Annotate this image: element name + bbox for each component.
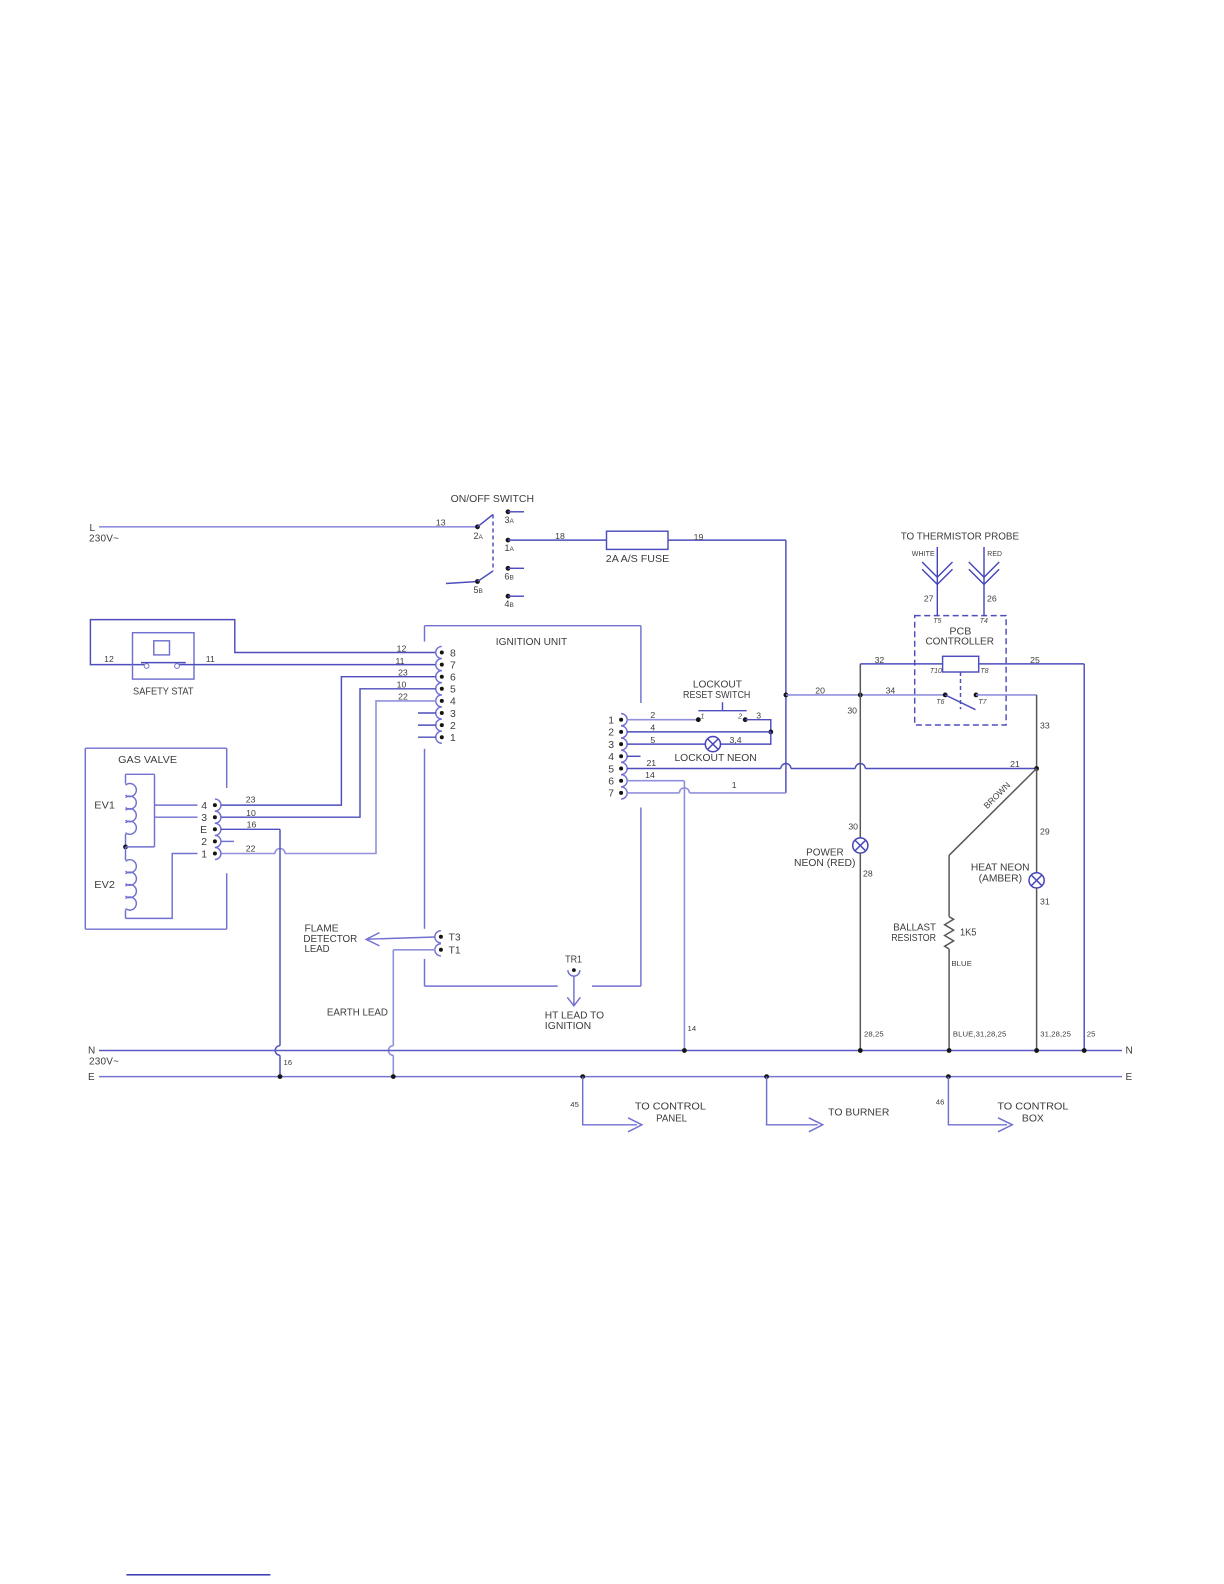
svg-text:1: 1 — [201, 849, 207, 860]
svg-text:2A: 2A — [474, 531, 484, 541]
arrow 45 TO CONTROL PANEL — [580, 1074, 585, 1079]
switch S1 blade 5B-6B — [478, 571, 494, 582]
switch S1 mechanical link (dashed) — [492, 515, 494, 572]
wire EV1 pin3 tap — [155, 816, 198, 818]
svg-text:BLUE: BLUE — [951, 959, 971, 968]
switch S1 contact 2A — [475, 524, 480, 529]
svg-text:1: 1 — [608, 716, 614, 727]
wire L (13) — [99, 526, 478, 528]
svg-text:LOCKOUT NEON: LOCKOUT NEON — [674, 753, 756, 764]
ignition unit terminal T1 — [435, 944, 441, 956]
wire N line — [99, 1050, 1122, 1052]
wire T7 to 33 — [976, 694, 1037, 696]
reset switch contact 1 — [696, 717, 701, 722]
wire 30 stub up — [859, 664, 861, 695]
svg-text:1K5: 1K5 — [960, 928, 977, 939]
switch S1 blade 2A-3A — [478, 515, 494, 527]
svg-text:3,4: 3,4 — [729, 735, 741, 745]
svg-text:IGNITION UNIT: IGNITION UNIT — [496, 637, 568, 648]
junction wire28-N — [858, 1048, 863, 1053]
svg-text:23: 23 — [246, 795, 256, 805]
svg-text:EARTH LEAD: EARTH LEAD — [327, 1008, 388, 1019]
ignition unit box — [425, 625, 641, 627]
svg-text:3A: 3A — [505, 515, 515, 525]
relay blade T6-T7 — [945, 695, 975, 710]
svg-text:32: 32 — [875, 655, 885, 665]
wire 19 vertical — [785, 540, 787, 793]
wire 1 pin7 to node — [627, 792, 680, 794]
svg-text:HT LEAD TO: HT LEAD TO — [545, 1011, 604, 1022]
relay contact T6 — [943, 693, 948, 698]
wire brown vertical — [948, 855, 950, 916]
footer rule — [126, 1574, 270, 1576]
svg-text:POWER: POWER — [806, 848, 844, 859]
svg-text:7: 7 — [450, 660, 456, 671]
svg-text:3: 3 — [201, 813, 207, 824]
wire 3 contact2 down — [745, 720, 771, 732]
wire 21 pin5 to heat neon node — [627, 768, 781, 770]
stub pin 4 right — [627, 755, 641, 757]
switch S1 contact 4B — [506, 594, 511, 599]
wire 22 gas valve pin1 to ignition pin4 — [285, 701, 436, 854]
flame detector arrow — [367, 937, 436, 939]
junction wire14-N — [682, 1048, 687, 1053]
svg-text:23: 23 — [398, 668, 408, 678]
svg-text:16: 16 — [247, 820, 257, 830]
fuse F1 2A A/S FUSE — [607, 531, 669, 549]
junction node 19-20-1 — [784, 693, 789, 698]
ignition unit left connector pin 4 — [436, 695, 442, 707]
svg-text:20: 20 — [815, 685, 825, 695]
wire EV1 pin4 tap — [155, 804, 198, 806]
svg-text:12: 12 — [397, 643, 407, 653]
svg-text:T10: T10 — [930, 668, 942, 675]
svg-text:LEAD: LEAD — [305, 944, 330, 955]
svg-text:2: 2 — [650, 710, 655, 720]
svg-text:3: 3 — [608, 740, 614, 751]
svg-text:LOCKOUT: LOCKOUT — [693, 679, 743, 690]
wire 19 fuse to node — [668, 539, 786, 541]
wire 23 gas valve pin4 to ignition pin6 — [221, 677, 436, 805]
svg-text:EV2: EV2 — [94, 880, 115, 891]
junction node 30 — [858, 693, 863, 698]
svg-text:T5: T5 — [933, 618, 941, 625]
svg-text:5B: 5B — [474, 585, 483, 595]
svg-text:1: 1 — [732, 780, 737, 790]
switch S1 contact 3A — [506, 509, 511, 514]
svg-text:10: 10 — [397, 680, 407, 690]
wire EARTH LEAD — [393, 949, 435, 951]
stub pin 3 — [418, 712, 436, 714]
wire 31 heat neon to N — [1036, 888, 1038, 1051]
probe lead RED (wire 26) — [983, 547, 985, 577]
wire 3-4 link — [720, 732, 771, 744]
gas valve box — [85, 747, 226, 749]
ignition unit terminal T3 — [435, 931, 441, 943]
stub gas valve pin 2 — [221, 840, 234, 842]
junction earth-E — [391, 1074, 396, 1079]
svg-text:230V~: 230V~ — [89, 1057, 119, 1068]
wire 30 node to power neon — [859, 695, 861, 838]
svg-text:14: 14 — [645, 770, 655, 780]
svg-text:30: 30 — [847, 706, 857, 716]
svg-text:10: 10 — [246, 808, 256, 818]
thermostat SAFETY STAT box — [133, 633, 195, 679]
lamp HEAT NEON (AMBER) — [1029, 873, 1044, 888]
resistor BALLAST RESISTOR 1K5 — [945, 917, 954, 949]
svg-text:5: 5 — [450, 685, 456, 696]
svg-text:22: 22 — [246, 844, 256, 854]
pushbutton lockout reset switch — [698, 710, 746, 712]
svg-text:BOX: BOX — [1022, 1114, 1044, 1125]
relay contact T7 — [974, 693, 979, 698]
switch S1 contact 6B — [506, 566, 511, 571]
svg-text:TO CONTROL: TO CONTROL — [997, 1101, 1068, 1112]
junction coils — [123, 845, 128, 850]
svg-text:6B: 6B — [505, 571, 514, 581]
svg-text:BALLAST: BALLAST — [893, 922, 936, 933]
arrow TO BURNER — [764, 1074, 769, 1079]
svg-text:TO CONTROL: TO CONTROL — [635, 1101, 706, 1112]
svg-text:DETECTOR: DETECTOR — [303, 934, 357, 945]
svg-text:CONTROLLER: CONTROLLER — [925, 637, 994, 648]
svg-text:11: 11 — [395, 656, 404, 666]
svg-text:4: 4 — [608, 752, 614, 763]
svg-text:2: 2 — [201, 837, 207, 848]
junction wire16-E — [278, 1074, 283, 1079]
svg-text:28: 28 — [863, 869, 873, 879]
svg-text:2: 2 — [608, 728, 614, 739]
thermostat SAFETY STAT body — [154, 641, 170, 655]
wire E line — [99, 1076, 1122, 1078]
svg-text:34: 34 — [886, 685, 896, 695]
svg-text:T1: T1 — [449, 946, 461, 957]
svg-text:T3: T3 — [449, 933, 461, 944]
svg-text:PANEL: PANEL — [656, 1114, 687, 1125]
svg-text:31: 31 — [1040, 896, 1050, 906]
thermostat SAFETY STAT contacts — [144, 664, 149, 669]
wire 10 gas valve pin3 to ignition pin5 — [221, 689, 436, 817]
svg-text:(AMBER): (AMBER) — [979, 874, 1022, 885]
svg-text:ON/OFF SWITCH: ON/OFF SWITCH — [451, 494, 534, 505]
wire 5 pin3 to neon — [627, 743, 706, 745]
svg-text:19: 19 — [694, 532, 704, 542]
svg-text:3: 3 — [450, 709, 456, 720]
svg-text:T8: T8 — [980, 668, 988, 675]
wire 16 gas valve pinE to E line — [221, 828, 280, 830]
reset switch contact 2 — [743, 717, 748, 722]
svg-text:E: E — [88, 1072, 95, 1083]
wire 20-34 node to T6 — [786, 694, 945, 696]
HT lead arrow — [573, 976, 575, 1005]
svg-text:6: 6 — [608, 777, 614, 788]
svg-text:GAS VALVE: GAS VALVE — [118, 755, 177, 766]
svg-text:RESISTOR: RESISTOR — [891, 933, 936, 944]
svg-text:BLUE,31,28,25: BLUE,31,28,25 — [953, 1030, 1006, 1039]
svg-text:25: 25 — [1030, 655, 1040, 665]
svg-text:SAFETY STAT: SAFETY STAT — [133, 687, 194, 698]
svg-text:31,28,25: 31,28,25 — [1040, 1030, 1071, 1039]
wire 28 power neon to N — [859, 853, 861, 1051]
svg-text:1: 1 — [450, 733, 456, 744]
wire BLUE resistor to N — [948, 949, 950, 1051]
svg-text:21: 21 — [1010, 759, 1020, 769]
svg-text:13: 13 — [436, 517, 446, 527]
wire 25 coil to N — [979, 663, 1084, 665]
svg-text:4: 4 — [450, 697, 456, 708]
wire 18 switch to fuse — [508, 539, 607, 541]
svg-text:TR1: TR1 — [565, 955, 582, 966]
svg-text:NEON (RED): NEON (RED) — [794, 858, 855, 869]
svg-text:IGNITION: IGNITION — [545, 1021, 591, 1032]
ignition unit left connector pin 8 — [436, 646, 442, 658]
lamp POWER NEON (RED) — [853, 838, 868, 853]
svg-text:EV1: EV1 — [94, 801, 115, 812]
junction wire31-N — [1034, 1048, 1039, 1053]
svg-text:33: 33 — [1040, 721, 1050, 731]
ignition unit left connector pin 6 — [436, 671, 442, 683]
lamp LOCKOUT NEON — [705, 737, 720, 752]
svg-text:27: 27 — [924, 593, 934, 603]
svg-text:6: 6 — [450, 673, 456, 684]
relay link dashed — [960, 672, 962, 709]
junction node 21-33 — [1034, 766, 1039, 771]
svg-text:2: 2 — [450, 721, 456, 732]
svg-text:T6: T6 — [936, 699, 944, 706]
svg-text:2: 2 — [737, 714, 742, 721]
svg-text:46: 46 — [936, 1098, 945, 1107]
wire 32 to relay coil — [860, 663, 942, 665]
svg-text:T7: T7 — [978, 699, 987, 706]
svg-text:8: 8 — [450, 648, 456, 659]
svg-text:1: 1 — [701, 714, 705, 721]
svg-text:2A A/S FUSE: 2A A/S FUSE — [606, 554, 670, 565]
svg-text:45: 45 — [570, 1100, 579, 1109]
ignition unit left connector pin 2 — [436, 719, 442, 731]
junction wire3-wire4 — [768, 730, 773, 735]
svg-text:RESET SWITCH: RESET SWITCH — [683, 690, 750, 701]
svg-text:29: 29 — [1040, 826, 1050, 836]
svg-text:TO BURNER: TO BURNER — [828, 1108, 890, 1119]
wire 12 pin8 to safety stat — [90, 620, 436, 665]
svg-text:WHITE: WHITE — [912, 549, 935, 558]
ignition unit left connector pin 7 — [436, 659, 442, 671]
svg-text:11: 11 — [206, 654, 215, 664]
stub pin 1 — [418, 736, 436, 738]
svg-text:1A: 1A — [505, 543, 515, 553]
solenoid coil EV1 — [126, 774, 137, 847]
svg-text:N: N — [1126, 1046, 1133, 1057]
svg-text:4: 4 — [650, 723, 655, 733]
wire EV1 top — [126, 773, 155, 775]
wire 11 safety stat to pin7 — [179, 664, 436, 666]
svg-text:12: 12 — [104, 654, 114, 664]
wire 4 pin2 — [627, 731, 771, 733]
svg-text:26: 26 — [987, 593, 997, 603]
stub pin 2 — [418, 724, 436, 726]
wire 29 node to heat neon — [1036, 769, 1038, 874]
svg-text:N: N — [88, 1046, 95, 1057]
switch S1 contact 5B — [446, 582, 478, 584]
switch S1 contact 1A — [506, 538, 511, 543]
probe lead WHITE (wire 27) — [936, 547, 938, 577]
svg-text:230V~: 230V~ — [89, 534, 119, 545]
arrow 46 TO CONTROL BOX — [946, 1074, 951, 1079]
svg-text:E: E — [200, 825, 207, 836]
PCB CONTROLLER dashed box — [915, 616, 1006, 725]
wire BROWN diagonal — [949, 769, 1037, 856]
svg-text:22: 22 — [398, 692, 408, 702]
wire 33 T7 down — [1036, 695, 1038, 769]
svg-text:RED: RED — [987, 549, 1002, 558]
svg-text:14: 14 — [688, 1024, 697, 1033]
svg-text:21: 21 — [646, 758, 656, 768]
svg-text:E: E — [1126, 1072, 1133, 1083]
wire EV2 bottom to pin1 — [126, 854, 198, 919]
ignition unit left connector pin 5 — [436, 683, 442, 695]
svg-text:T4: T4 — [980, 618, 988, 625]
svg-text:18: 18 — [555, 531, 565, 541]
svg-text:4: 4 — [201, 801, 207, 812]
wire 14 pin6 to N — [627, 780, 685, 782]
svg-text:3: 3 — [756, 711, 761, 721]
svg-text:TO THERMISTOR PROBE: TO THERMISTOR PROBE — [901, 532, 1019, 543]
svg-text:30: 30 — [848, 822, 858, 832]
relay coil K1 — [943, 656, 979, 672]
wire 2 pin1 to reset switch — [627, 719, 699, 721]
svg-text:L: L — [90, 523, 96, 534]
svg-text:4B: 4B — [505, 599, 514, 609]
ignition unit left connector pin 1 — [436, 731, 442, 743]
svg-text:16: 16 — [284, 1058, 293, 1067]
svg-text:BROWN: BROWN — [982, 780, 1013, 811]
svg-text:7: 7 — [608, 789, 614, 800]
junction wire25-N — [1082, 1048, 1087, 1053]
svg-text:HEAT NEON: HEAT NEON — [971, 863, 1030, 874]
ignition unit left connector pin 3 — [436, 707, 442, 719]
svg-text:28,25: 28,25 — [864, 1030, 884, 1039]
svg-text:5: 5 — [608, 764, 614, 775]
solenoid coil EV2 — [126, 847, 137, 919]
svg-text:5: 5 — [650, 735, 655, 745]
svg-text:25: 25 — [1087, 1030, 1096, 1039]
junction blue-N — [947, 1048, 952, 1053]
